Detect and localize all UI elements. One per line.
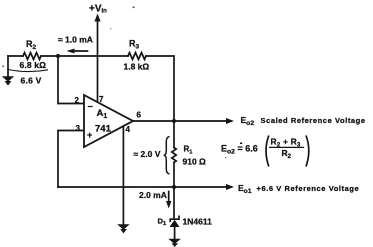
dot above equals sign	[240, 143, 242, 145]
wire: zener anode to ground	[174, 227, 176, 239]
wire: left stub to R2	[8, 55, 23, 57]
formula left paren	[266, 136, 269, 167]
svg-text:−: −	[88, 102, 93, 112]
svg-text:1N4611: 1N4611	[183, 217, 213, 227]
svg-text:≈ 1.0 mA: ≈ 1.0 mA	[58, 35, 93, 45]
svg-text:2.0 mA: 2.0 mA	[139, 190, 167, 200]
svg-text:4: 4	[126, 125, 131, 134]
svg-text:Scaled Reference Voltage: Scaled Reference Voltage	[261, 116, 366, 125]
underline under 6.8 kOhm	[8, 70, 48, 72]
svg-text:2: 2	[75, 96, 80, 105]
junction: zener tap on +6.6V rail	[172, 185, 176, 189]
svg-text:≈ 2.0 V: ≈ 2.0 V	[134, 149, 161, 159]
svg-text:741: 741	[95, 124, 112, 135]
wire: +6.6V rail (Eo1)	[58, 184, 234, 190]
wire: output row (pin 6 to Eo2 arrow)	[133, 118, 234, 124]
svg-text:1.8 kΩ: 1.8 kΩ	[124, 62, 150, 72]
ground (pin 4)	[117, 224, 129, 233]
junction: feedback tap to pin 2	[56, 54, 60, 58]
current arrow: 1.0 mA (leftward)	[67, 49, 88, 54]
pin 4 wire to ground	[122, 126, 124, 225]
svg-text:7: 7	[99, 95, 104, 104]
fraction bar in Eo2 formula	[270, 146, 304, 148]
current arrow: 2.0 mA (downward)	[166, 192, 171, 209]
scan speck	[133, 7, 135, 9]
+Vin supply arrow	[94, 14, 100, 103]
svg-text:6.6 V: 6.6 V	[21, 76, 42, 86]
wire: R3 to output node (corner)	[146, 56, 174, 148]
resistor R1 (910 ohm)	[172, 148, 176, 163]
wire: pin 3 to +6.6V rail	[58, 131, 84, 188]
resistor R2	[23, 53, 41, 60]
svg-text:910 Ω: 910 Ω	[183, 157, 207, 167]
svg-text:+: +	[87, 130, 92, 140]
ground (zener anode)	[168, 239, 181, 247]
svg-text:6.8 kΩ: 6.8 kΩ	[20, 60, 47, 70]
zener diode D1 (1N4611)	[170, 216, 180, 227]
scan speck	[110, 28, 111, 29]
wire: pin 2 to summing node	[58, 56, 84, 104]
wire: R2 to R3 (summing node)	[41, 55, 128, 57]
svg-text:3: 3	[76, 124, 81, 133]
scan speck	[225, 157, 227, 158]
svg-text:+6.6 V Reference Voltage: +6.6 V Reference Voltage	[257, 184, 360, 193]
svg-text:6: 6	[137, 111, 142, 120]
scan speck	[2, 66, 4, 68]
junction: output node	[172, 119, 176, 123]
resistor R3	[128, 53, 146, 60]
formula right paren	[306, 136, 309, 167]
ground (left, R2 return)	[2, 56, 14, 86]
wire: R1 to +6.6V rail	[173, 163, 175, 219]
brace for 2.0 V	[164, 137, 170, 175]
op-amp U1 (A1, 741)	[84, 95, 133, 147]
